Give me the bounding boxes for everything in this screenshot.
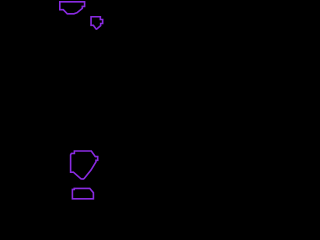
- outline region 4 (bottom tray shape): [72, 188, 93, 198]
- outline region 2 (small notched blob): [91, 17, 103, 29]
- outline region 3 (large shield blob): [71, 151, 98, 179]
- outline region 1 (top bowl shape): [60, 2, 85, 14]
